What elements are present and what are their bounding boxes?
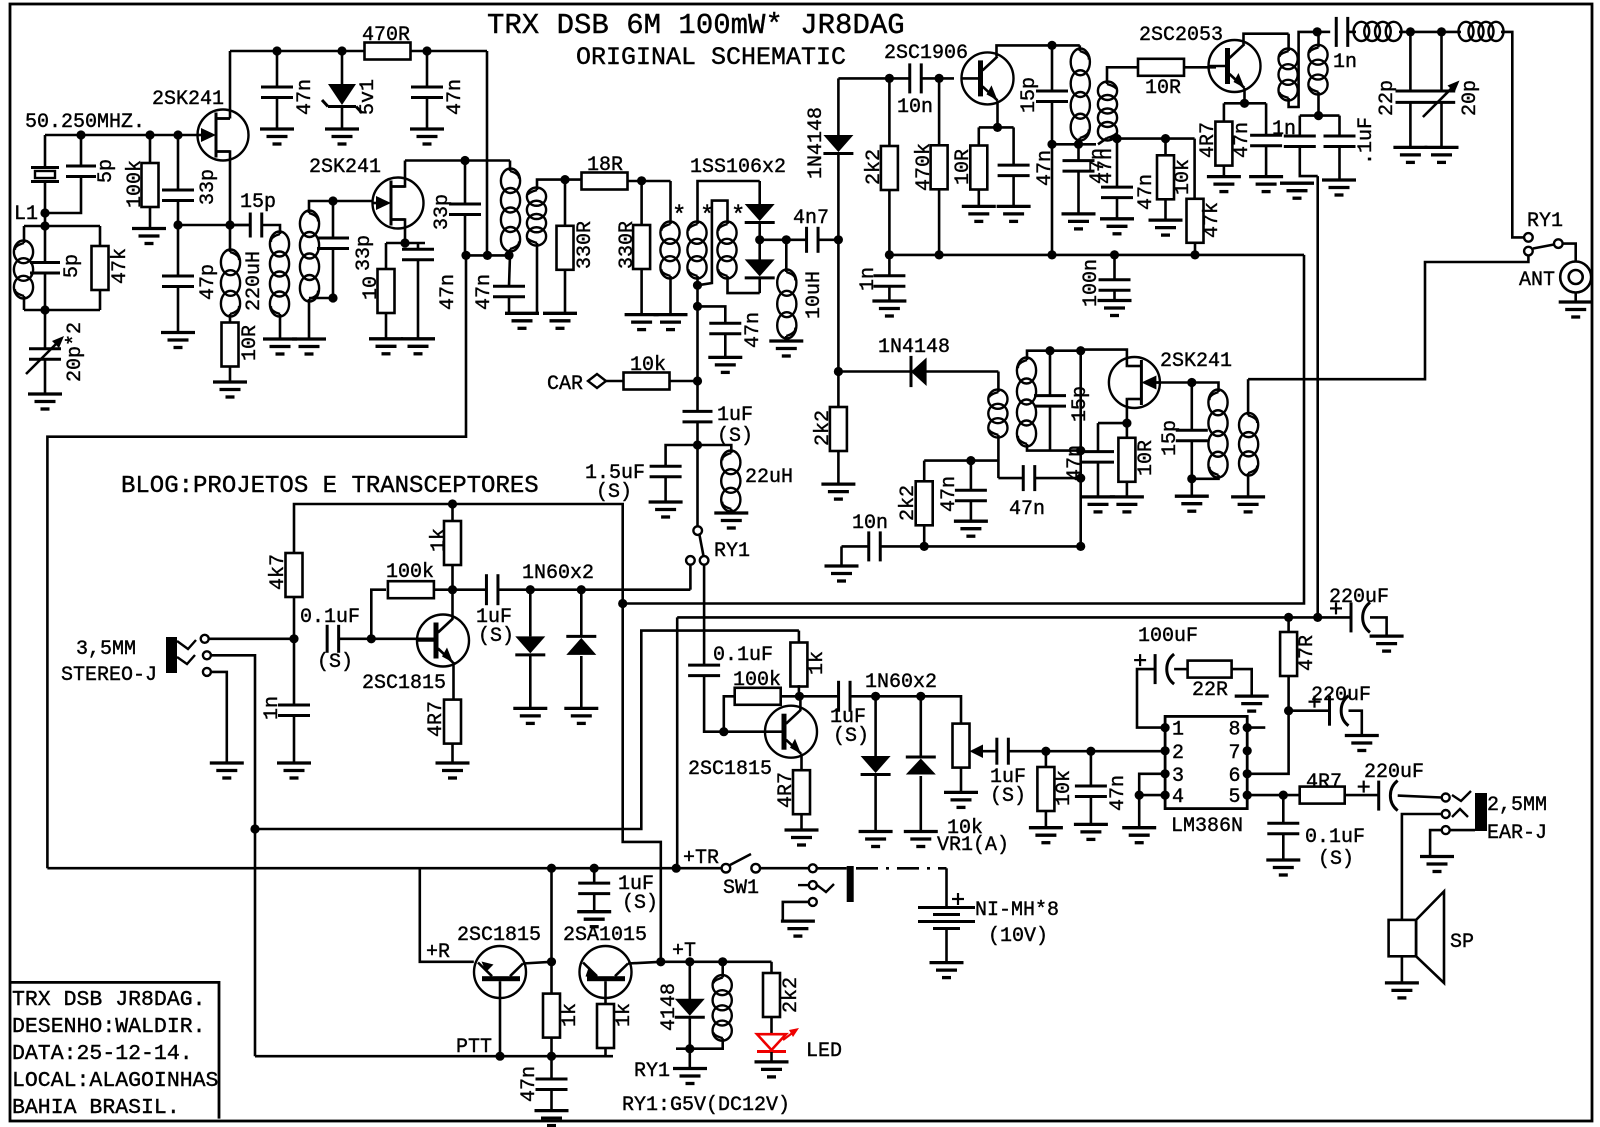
wire t4s bot bbox=[1027, 444, 1081, 451]
ground bbox=[132, 229, 166, 244]
wire wa drop bbox=[623, 604, 661, 962]
wire c47n q3 stub bbox=[1012, 127, 1015, 165]
wire fb rail bbox=[178, 224, 250, 227]
svg-text:8: 8 bbox=[1228, 719, 1240, 742]
wire mixL3 bot bbox=[728, 276, 760, 293]
capacitor .1uF bbox=[1324, 136, 1356, 147]
wire to gnd 1.5uF bbox=[664, 477, 667, 502]
svg-text:47p: 47p bbox=[197, 264, 220, 300]
wire 22R w1 bbox=[1174, 668, 1188, 671]
wire q7 emit bbox=[800, 754, 803, 771]
wire t4p bot bbox=[997, 435, 1000, 478]
ground bbox=[825, 566, 859, 581]
svg-text:15p: 15p bbox=[1159, 420, 1182, 456]
dash link bbox=[856, 867, 947, 870]
svg-text:1k: 1k bbox=[806, 651, 829, 675]
svg-text:47n: 47n bbox=[1087, 148, 1110, 184]
capacitor 220uF c bbox=[1379, 781, 1398, 811]
wire det L2 top bbox=[1247, 379, 1250, 415]
resistor 100k mic fb bbox=[388, 581, 434, 598]
wire car drop bbox=[696, 381, 699, 411]
wire mixL3 top bbox=[698, 201, 728, 286]
svg-text:47n: 47n bbox=[742, 312, 765, 348]
capacitor 47n T3 bbox=[1063, 161, 1095, 172]
resistor 10 Q2 source bbox=[378, 269, 395, 313]
ground bbox=[1420, 857, 1454, 872]
wire r1ka stub2 bbox=[550, 1038, 553, 1057]
node wb n2 bbox=[1313, 613, 1322, 622]
wire 10uH stub2 bbox=[785, 336, 788, 341]
wire c5p2 stub2 bbox=[44, 273, 47, 310]
resistor 4k7 mic bbox=[286, 553, 303, 597]
ground bbox=[714, 513, 748, 528]
node d60d n bbox=[916, 692, 925, 701]
svg-text:EAR-J: EAR-J bbox=[1487, 822, 1547, 845]
pot wiper arrow bbox=[972, 750, 996, 753]
inductor det L2 bbox=[1239, 413, 1258, 476]
capacitor 47n af bbox=[1075, 786, 1107, 797]
wire rail down right bbox=[486, 51, 489, 255]
ground bbox=[1098, 301, 1132, 316]
node 10n n1 bbox=[920, 542, 929, 551]
wire sw out bbox=[760, 867, 809, 870]
wire micout w bbox=[498, 588, 690, 591]
svg-text:2k2: 2k2 bbox=[897, 485, 920, 521]
wire r470k stub2 bbox=[938, 189, 941, 255]
relay lever RY1 top bbox=[1533, 245, 1554, 249]
svg-text:10n: 10n bbox=[897, 96, 933, 119]
svg-text:47n: 47n bbox=[1231, 122, 1254, 158]
svg-text:+R: +R bbox=[426, 941, 450, 964]
relay coil RY1 bbox=[713, 975, 732, 1041]
ground bbox=[543, 313, 577, 328]
wire t3p bot2 bbox=[1079, 138, 1080, 144]
wire c15p in bbox=[230, 224, 250, 227]
capacitor 1uF S tx bbox=[839, 681, 851, 712]
jack tip arm bbox=[177, 640, 196, 649]
svg-text:1N60x2: 1N60x2 bbox=[865, 671, 937, 694]
transformer T4 primary bbox=[988, 390, 1007, 438]
capacitor 47n car bbox=[709, 323, 741, 334]
svg-text:BAHIA BRASIL.: BAHIA BRASIL. bbox=[12, 1096, 180, 1120]
wire wb left drop bbox=[676, 617, 679, 868]
jack sleeve contact bbox=[203, 668, 211, 676]
wire r47k stub bbox=[99, 226, 102, 246]
svg-text:100uF: 100uF bbox=[1138, 625, 1198, 648]
svg-text:47k: 47k bbox=[109, 248, 132, 284]
wire c1uF sw stub2 bbox=[593, 894, 596, 912]
wire ry1 b drop2 bbox=[704, 676, 724, 732]
wire gate rail bbox=[45, 134, 198, 137]
svg-text:10k: 10k bbox=[1053, 770, 1076, 806]
capacitor 33p Q2 gate bbox=[317, 238, 349, 249]
wire 100k tx left bbox=[724, 696, 735, 731]
wire det drop bbox=[1079, 351, 1082, 547]
wire c47n f1 stub bbox=[1116, 139, 1119, 187]
wire ear sleeve w bbox=[1450, 829, 1475, 832]
svg-text:DESENHO:WALDIR.: DESENHO:WALDIR. bbox=[12, 1015, 206, 1039]
wire zener stub2 bbox=[341, 107, 344, 129]
wire micout up bbox=[689, 565, 692, 590]
svg-text:47n: 47n bbox=[1135, 174, 1158, 210]
ground bbox=[1100, 219, 1134, 234]
capacitor 47n series bbox=[1023, 465, 1035, 491]
wire q9 e w bbox=[628, 962, 690, 964]
wire q2s rail bbox=[386, 242, 425, 245]
resistor 47R bbox=[1280, 632, 1297, 676]
wire d60d stub bbox=[919, 696, 922, 757]
node t3p bot bbox=[1074, 140, 1083, 149]
svg-text:TRX DSB JR8DAG.: TRX DSB JR8DAG. bbox=[12, 988, 206, 1012]
node m2 bbox=[483, 251, 492, 260]
wire supply rail top bbox=[230, 50, 487, 53]
node relay n bbox=[685, 1044, 694, 1053]
wire t1s top bbox=[309, 201, 373, 213]
wire c47n2 stub2 bbox=[417, 260, 420, 339]
node tr n1 bbox=[547, 864, 556, 873]
svg-text:470R: 470R bbox=[362, 24, 410, 47]
wire c1n stub bbox=[888, 255, 891, 276]
wire d4148 stub2 bbox=[688, 1018, 691, 1049]
node af n2 bbox=[1086, 747, 1095, 756]
svg-text:100k: 100k bbox=[124, 160, 147, 208]
wire pin8 stub bbox=[1247, 726, 1265, 729]
svg-text:33p: 33p bbox=[353, 235, 376, 271]
wire lo2 wire bbox=[838, 370, 998, 373]
wire r1k mic stub bbox=[451, 565, 454, 590]
svg-text:6: 6 bbox=[1228, 765, 1240, 788]
svg-text:4R7: 4R7 bbox=[425, 701, 448, 737]
svg-text:47n: 47n bbox=[1034, 150, 1057, 186]
wire mic w2 bbox=[339, 637, 435, 640]
resistor 330R a bbox=[557, 226, 574, 270]
inductor PA choke bbox=[1279, 49, 1298, 101]
node m1 bbox=[461, 251, 470, 260]
node br1 bbox=[885, 250, 894, 259]
wire 47k stub2 bbox=[1194, 243, 1197, 255]
svg-text:1k: 1k bbox=[613, 1003, 636, 1027]
wire mixL bot bbox=[669, 276, 672, 315]
wire relay gnd bbox=[688, 1049, 691, 1069]
pin 1 LM386 bbox=[1161, 723, 1170, 732]
wire r2k2 stub2 bbox=[888, 190, 891, 255]
pin 7 LM386 bbox=[1243, 746, 1252, 755]
resistor 2k2 led bbox=[763, 973, 780, 1017]
wire q4 e rail bbox=[1224, 102, 1266, 105]
inductor 10uH bbox=[777, 270, 796, 339]
node rail c bbox=[422, 46, 431, 55]
wire q4 emit bbox=[1243, 88, 1246, 103]
ground bbox=[1370, 636, 1404, 651]
wire d2 stub bbox=[758, 278, 761, 293]
svg-text:0.1uF: 0.1uF bbox=[713, 644, 773, 667]
relay contact RY1 d bbox=[1524, 233, 1533, 242]
svg-text:220uH: 220uH bbox=[243, 251, 266, 311]
wire det L2 bot bbox=[1247, 473, 1250, 497]
jack ring arm bbox=[177, 655, 195, 664]
ground bbox=[1266, 860, 1300, 875]
svg-text:330R: 330R bbox=[574, 221, 597, 269]
capacitor 1n bias bbox=[873, 276, 905, 287]
wire c47n af stub bbox=[1090, 751, 1093, 786]
svg-text:+TR: +TR bbox=[683, 847, 719, 870]
svg-text:1N4148: 1N4148 bbox=[805, 107, 828, 179]
svg-text:1SS106x2: 1SS106x2 bbox=[690, 156, 786, 179]
wire 47n tap2 bbox=[724, 334, 727, 357]
wire t3s bot bbox=[1098, 138, 1107, 144]
ground bbox=[369, 339, 403, 354]
svg-text:10R: 10R bbox=[1145, 77, 1181, 100]
wire r2k2c stub2 bbox=[923, 525, 926, 546]
resistor 1k sw a bbox=[543, 994, 560, 1038]
ground bbox=[401, 339, 435, 354]
wire 10n w1 bbox=[842, 545, 869, 548]
wire 47n tap bbox=[698, 306, 726, 323]
node tank bot bbox=[40, 305, 49, 314]
resistor 4R7 Q7 bbox=[793, 770, 810, 814]
capacitor 47n det bbox=[955, 490, 987, 501]
wire cap1 stub bbox=[276, 51, 279, 87]
node det n4 bbox=[1076, 542, 1085, 551]
wire out w2 bbox=[1398, 796, 1442, 798]
wire r4k7 stub bbox=[293, 575, 296, 639]
wire t3s top bbox=[1107, 67, 1139, 84]
wire r10k stub bbox=[1164, 139, 1167, 156]
capacitor 0.1uF tx bbox=[688, 665, 720, 676]
svg-text:2SK241: 2SK241 bbox=[152, 88, 224, 111]
relay lever RY1 a bbox=[700, 535, 704, 556]
wire cj sleeve bbox=[783, 902, 809, 921]
svg-text:1uF: 1uF bbox=[717, 404, 753, 427]
diode 1SS106 b bbox=[745, 259, 775, 276]
wire xtal stub2 bbox=[44, 182, 47, 213]
ground bbox=[755, 1062, 789, 1077]
wire t1s bot bbox=[308, 299, 311, 339]
resistor 18R bbox=[582, 173, 628, 190]
wire fb out bbox=[434, 588, 486, 591]
wire sp w bbox=[1402, 814, 1442, 920]
wire c47n sw stub2 bbox=[550, 1090, 553, 1111]
inductor LPF L2 bbox=[1459, 22, 1504, 41]
transistor 2SC1815 Q7 tx bbox=[765, 706, 817, 758]
svg-text:15p: 15p bbox=[240, 191, 276, 214]
svg-text:3,5MM: 3,5MM bbox=[76, 638, 136, 661]
wire 22R w2 bbox=[1232, 669, 1252, 696]
node gate2 bbox=[328, 196, 337, 205]
node tank top bbox=[40, 208, 49, 217]
svg-text:*: * bbox=[731, 203, 745, 230]
ground bbox=[1322, 180, 1356, 195]
capacitor 1n series bbox=[1336, 17, 1348, 47]
svg-text:RY1: RY1 bbox=[634, 1060, 670, 1083]
wire r1ka stub bbox=[550, 868, 553, 993]
node q2s bbox=[400, 238, 409, 247]
node g2 bbox=[145, 130, 154, 139]
ear mid arm bbox=[1452, 809, 1468, 817]
svg-text:47n: 47n bbox=[1009, 498, 1045, 521]
wire r100k stub2 bbox=[149, 207, 152, 229]
wire to 22uH bbox=[698, 445, 732, 453]
wire bias rail bbox=[889, 254, 1304, 257]
wire c22p stub2 bbox=[1409, 102, 1412, 147]
resistor 100k Q1 gate bbox=[142, 163, 159, 207]
svg-text:47n: 47n bbox=[1064, 445, 1087, 481]
wire t4s top bbox=[1027, 351, 1081, 360]
svg-text:5: 5 bbox=[1228, 786, 1240, 809]
diode 1N60 a bbox=[515, 636, 545, 653]
capacitor 47n ptt bbox=[536, 1079, 568, 1090]
node mic supply n bbox=[448, 499, 457, 508]
wire r4R7 stub bbox=[1223, 103, 1226, 122]
ground bbox=[1175, 496, 1209, 511]
wire ant rail bbox=[1317, 31, 1330, 34]
svg-text:33p: 33p bbox=[431, 194, 454, 230]
wire drain drop Q1 bbox=[229, 51, 232, 119]
wire r10R3 stub2 bbox=[977, 190, 980, 207]
wire 220b w2 bbox=[1349, 711, 1362, 736]
node det n1 bbox=[1076, 346, 1085, 355]
node ry node bbox=[693, 440, 702, 449]
node d60 n1 bbox=[526, 585, 535, 594]
capacitor 33p tank2 bbox=[449, 204, 481, 215]
ground bbox=[673, 1069, 707, 1084]
svg-text:4R7: 4R7 bbox=[775, 772, 798, 808]
wire ant link bbox=[1563, 244, 1576, 262]
svg-text:(10V): (10V) bbox=[988, 925, 1048, 948]
ground bbox=[1559, 302, 1593, 317]
ground bbox=[410, 129, 444, 144]
wire c15p4 stub2 bbox=[1191, 441, 1194, 479]
wire ant rail4 bbox=[1501, 32, 1524, 238]
svg-text:47k: 47k bbox=[1201, 202, 1224, 238]
capacitor 47n Q5 bbox=[1082, 452, 1114, 463]
node t4 tap n bbox=[966, 456, 975, 465]
wire c1n mic stub bbox=[293, 639, 296, 705]
wire r1k tx stub bbox=[798, 631, 801, 644]
wire rx line bbox=[1248, 255, 1528, 379]
wire zener stub bbox=[341, 51, 344, 84]
node m3 bbox=[504, 251, 513, 260]
wire trim stub2 bbox=[44, 360, 47, 395]
node ant n0 bbox=[1313, 27, 1322, 36]
wire c47n q4 stub bbox=[1265, 103, 1268, 135]
ear mid contact bbox=[1442, 810, 1450, 818]
battery NI-MH*8 bbox=[918, 908, 975, 929]
potentiometer 10k VR1 bbox=[953, 724, 970, 768]
node lo n1 bbox=[885, 74, 894, 83]
svg-text:22p: 22p bbox=[1376, 80, 1399, 116]
svg-text:47n: 47n bbox=[938, 476, 961, 512]
wire c47n q5 stub2 bbox=[1097, 462, 1100, 497]
resistor 10k af bbox=[1037, 767, 1054, 811]
node g3 bbox=[173, 130, 182, 139]
capacitor 22p/20p plates bbox=[1396, 91, 1456, 102]
svg-text:(S): (S) bbox=[622, 892, 658, 915]
svg-text:47n: 47n bbox=[444, 79, 467, 115]
ear tip contact bbox=[1442, 794, 1450, 802]
svg-text:1k: 1k bbox=[428, 528, 451, 552]
trimmer arrow bbox=[26, 340, 60, 374]
node br5 bbox=[1190, 250, 1199, 259]
diode 4148 relay bbox=[675, 999, 705, 1016]
wire batt top bbox=[945, 868, 948, 907]
wire det coil wire bbox=[1192, 383, 1219, 393]
LED red bbox=[757, 1034, 786, 1050]
svg-text:10k: 10k bbox=[1172, 159, 1195, 195]
svg-text:(S): (S) bbox=[990, 785, 1026, 808]
svg-text:2SC1906: 2SC1906 bbox=[884, 42, 968, 65]
capacitor 47n osc2 bbox=[411, 87, 443, 98]
wire tip wire bbox=[209, 637, 294, 640]
ground bbox=[708, 357, 742, 372]
svg-text:47R: 47R bbox=[1296, 635, 1319, 671]
wire pin4 w bbox=[1139, 794, 1165, 797]
node flt n2 bbox=[1161, 134, 1170, 143]
ground bbox=[1393, 147, 1427, 162]
wire mix rail bbox=[465, 254, 510, 257]
ground bbox=[944, 792, 978, 807]
wire 330Ra stub bbox=[564, 180, 567, 226]
wire c33p3 stub2 bbox=[464, 215, 467, 256]
wire 47R stub bbox=[1287, 617, 1290, 632]
wire tank link bbox=[1052, 143, 1096, 146]
node mic n3 bbox=[448, 585, 457, 594]
info box bbox=[10, 982, 219, 1118]
wire lo drop bbox=[838, 77, 889, 80]
wire ry drop bbox=[696, 445, 699, 526]
wire r1kb stub bbox=[604, 1001, 607, 1004]
wire d60c stub2 bbox=[874, 775, 877, 832]
wire c20p stub2 bbox=[1440, 102, 1443, 147]
capacitor 100n bbox=[1099, 280, 1131, 291]
wire r4R7 stub2 bbox=[1223, 165, 1226, 176]
wire c47n q3 stub2 bbox=[1012, 176, 1015, 207]
wire c0.1 stub bbox=[1282, 795, 1285, 823]
capacitor 47n Q4 bbox=[1250, 135, 1282, 146]
wire c15p3 stub2 bbox=[1049, 406, 1052, 450]
node pin4 n bbox=[1135, 791, 1144, 800]
wire 10R out bbox=[1184, 66, 1216, 69]
inductor LPF L1 bbox=[1354, 22, 1402, 41]
wire mix top rail bbox=[698, 181, 760, 224]
wire r470k stub bbox=[938, 78, 941, 145]
inductor L1 bbox=[14, 241, 33, 299]
wire t2p bot bbox=[509, 249, 512, 255]
svg-text:STEREO-J: STEREO-J bbox=[61, 664, 157, 687]
wire t2s top bbox=[537, 180, 582, 190]
node g1 bbox=[76, 130, 85, 139]
node ptt n2 bbox=[547, 1052, 556, 1061]
node af n1 bbox=[1041, 747, 1050, 756]
wire q6 e stub bbox=[451, 744, 454, 763]
transistor 2SK241 Q1 oscillator bbox=[198, 110, 249, 161]
wire pin4 gnd bbox=[1138, 795, 1141, 828]
node drail bbox=[460, 156, 469, 165]
ground bbox=[904, 832, 938, 847]
wire r10k af stub2 bbox=[1045, 811, 1048, 828]
wire r1kb stub2 bbox=[606, 1048, 614, 1056]
capacitor 10n det bbox=[869, 531, 881, 561]
node wb n1 bbox=[1284, 613, 1293, 622]
node pin5 n bbox=[1279, 791, 1288, 800]
wire c47p stub bbox=[177, 225, 180, 276]
svg-text:0.1uF: 0.1uF bbox=[1305, 826, 1365, 849]
wire txout w bbox=[850, 696, 961, 723]
resistor 10R Q1 source bbox=[222, 323, 239, 367]
wire q6 emit bbox=[452, 662, 455, 701]
capacitor 1n shunt bbox=[1284, 136, 1316, 147]
ground bbox=[1110, 497, 1144, 512]
